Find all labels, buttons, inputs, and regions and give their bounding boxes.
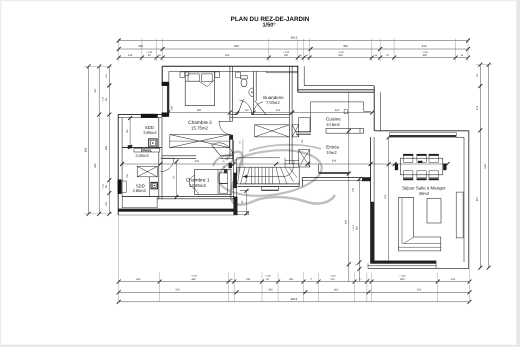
- wall cuisine north poche: [298, 90, 374, 92]
- svg-text:479: 479: [175, 289, 180, 292]
- wall cuisine entree: [296, 131, 311, 134]
- dim corridor stub: [239, 140, 243, 168]
- svg-text:650: 650: [225, 54, 230, 57]
- vertical dim 157 sejour: [384, 135, 391, 264]
- svg-text:14,85m2: 14,85m2: [189, 183, 206, 188]
- svg-text:150: 150: [451, 278, 456, 281]
- dim 400 rotated chambre2 west: [170, 105, 173, 110]
- vertical dim 862: [352, 177, 362, 282]
- dim bottom row 3 total 8013: [117, 297, 472, 304]
- svg-text:180: 180: [284, 54, 289, 57]
- dim left column lines: [84, 64, 112, 215]
- svg-text:3,85m2: 3,85m2: [143, 130, 157, 135]
- svg-text:627: 627: [476, 196, 479, 201]
- label chambre2: [188, 120, 212, 131]
- wall top exterior chambre2: [162, 66, 298, 71]
- wall corridor south of wc: [230, 115, 289, 118]
- dim sdd2 left: [126, 173, 129, 177]
- label dress: [135, 149, 152, 158]
- svg-text:8: 8: [369, 278, 370, 281]
- wall wing top with window: [118, 114, 168, 118]
- wall sejour east: [464, 131, 469, 269]
- label sejour: [402, 185, 446, 196]
- dim 146 label: [352, 187, 355, 191]
- dim top row 1 total 8013: [117, 36, 470, 43]
- wall chambre2 wc: [230, 66, 233, 158]
- wall sejour north with window: [375, 131, 469, 138]
- svg-text:516: 516: [422, 44, 427, 48]
- svg-text:452: 452: [343, 44, 348, 48]
- svg-text:274: 274: [476, 105, 479, 110]
- svg-text:980: 980: [423, 54, 428, 57]
- svg-text:8013: 8013: [291, 297, 298, 301]
- dim ticks bed chambre1: [222, 160, 226, 168]
- svg-text:171: 171: [172, 175, 175, 180]
- sofa sejour L: [398, 198, 441, 251]
- svg-text:940: 940: [344, 219, 347, 224]
- svg-text:252: 252: [276, 109, 281, 112]
- wall wing bottom poche: [118, 197, 237, 215]
- door buanderie arc: [253, 101, 266, 115]
- dim bottom row 1: [117, 275, 472, 284]
- wall west upper with window: [162, 66, 169, 116]
- svg-text:10m2: 10m2: [326, 150, 337, 155]
- svg-text:963: 963: [334, 289, 339, 292]
- interior dim chain horizontal: [120, 160, 449, 166]
- svg-text:153: 153: [289, 278, 294, 281]
- svg-text:420: 420: [335, 109, 340, 112]
- wall chambre1 north: [162, 156, 234, 168]
- kitchen counter top: [311, 102, 372, 131]
- closet entree strip xbox: [292, 118, 310, 168]
- svg-text:8013: 8013: [291, 36, 298, 40]
- dim top row 2: [117, 44, 470, 51]
- dim left labels: [85, 73, 109, 206]
- dim 155 terrace step: [241, 189, 249, 216]
- dim 990 under bed: [166, 109, 232, 115]
- wall entree south: [299, 178, 370, 187]
- svg-text:10,6m2: 10,6m2: [326, 122, 340, 127]
- wc cistern box: [236, 72, 241, 78]
- door chambre1 arc: [212, 143, 234, 161]
- wall sejour west poche: [370, 137, 374, 264]
- sideboard sejour east: [456, 192, 463, 238]
- svg-text:236: 236: [136, 278, 141, 281]
- wall step terrace poche: [234, 197, 249, 215]
- interior dim 171: [172, 160, 178, 199]
- svg-text:1/50°: 1/50°: [262, 22, 275, 29]
- svg-text:400: 400: [170, 105, 173, 110]
- dining table: [395, 154, 447, 180]
- svg-text:3,30m2: 3,30m2: [135, 153, 149, 158]
- wall sdd dress chambre2: [159, 118, 162, 200]
- svg-text:433: 433: [332, 160, 337, 163]
- svg-text:Séjour Salle à Manger: Séjour Salle à Manger: [402, 185, 446, 190]
- dim bottom extension lines: [119, 215, 470, 302]
- closet buanderie xbox: [255, 125, 290, 137]
- svg-text:+ 0.00: + 0.00: [102, 96, 105, 103]
- title PLAN DU REZ-DE-JARDIN: [231, 16, 310, 29]
- dim right labels: [476, 73, 487, 201]
- dim 100 252 wc buanderie: [233, 109, 294, 115]
- svg-text:+ 0.00: + 0.00: [102, 183, 105, 190]
- sink sdd1: [149, 139, 157, 147]
- svg-text:7,50m2: 7,50m2: [266, 100, 280, 105]
- svg-text:3,85m2: 3,85m2: [133, 188, 147, 193]
- svg-text:440: 440: [191, 278, 196, 281]
- label entree: [326, 145, 340, 155]
- bed chambre1: [190, 170, 232, 195]
- svg-text:112: 112: [105, 73, 108, 77]
- staircase: [237, 158, 349, 184]
- sink wc: [249, 88, 253, 97]
- bed chambre2: [180, 72, 220, 106]
- watermark agency logo: [213, 145, 335, 205]
- svg-text:400: 400: [195, 160, 200, 163]
- wall cuisine east: [374, 86, 380, 131]
- svg-text:1147: 1147: [484, 163, 487, 169]
- closet chambre2 xbox: [170, 135, 230, 148]
- svg-text:862: 862: [338, 54, 343, 57]
- wall chambre1 east poche: [233, 140, 236, 199]
- svg-text:595: 595: [417, 289, 422, 292]
- wall buanderie east exterior: [298, 66, 374, 92]
- svg-text:210: 210: [330, 278, 335, 281]
- svg-text:257: 257: [94, 88, 97, 93]
- door chambre2 arc: [219, 121, 233, 139]
- svg-text:608: 608: [85, 147, 88, 152]
- wall chambre1 south: [122, 197, 233, 199]
- label sdd1: [143, 125, 157, 135]
- vertical dim kitchen entree: [344, 92, 350, 281]
- svg-text:100: 100: [245, 109, 250, 112]
- wall dress poche band: [122, 145, 161, 152]
- svg-text:157: 157: [384, 194, 387, 199]
- dim sdd1 left: [126, 116, 132, 149]
- svg-text:Entrée: Entrée: [326, 145, 340, 150]
- wall buanderie west closets: [289, 66, 292, 164]
- vertical dim 225 entree: [301, 139, 304, 143]
- door wc arc: [238, 99, 252, 115]
- svg-text:635: 635: [94, 163, 97, 168]
- toilet wc: [241, 75, 247, 86]
- svg-text:39m2: 39m2: [419, 191, 430, 196]
- wall wc buanderie: [253, 71, 256, 114]
- svg-text:192: 192: [105, 201, 108, 206]
- svg-text:135: 135: [128, 54, 133, 57]
- label sdd2: [133, 183, 147, 193]
- svg-text:862: 862: [355, 225, 358, 230]
- wall west lower with window: [118, 114, 127, 215]
- svg-text:990: 990: [268, 289, 273, 292]
- wall stair enclosure south: [237, 184, 299, 191]
- svg-text:450: 450: [138, 44, 143, 48]
- svg-text:121: 121: [476, 73, 479, 78]
- buanderie high window: [266, 71, 297, 72]
- label buanderie: [263, 95, 284, 105]
- door corridor arc: [161, 158, 175, 172]
- svg-text:15,75m2: 15,75m2: [191, 126, 208, 131]
- closet sdd2 xbox: [137, 166, 157, 196]
- label chambre1: [186, 177, 210, 188]
- svg-text:860: 860: [400, 278, 405, 281]
- dim 420 kitchen: [290, 109, 374, 115]
- dim right column lines: [476, 63, 492, 270]
- label cuisine: [326, 117, 342, 127]
- dim top row 3: [117, 51, 470, 60]
- wall sejour bottom poche: [368, 261, 469, 269]
- dim bottom row 2: [117, 289, 472, 295]
- svg-text:153: 153: [246, 278, 251, 281]
- sink sdd2: [151, 182, 157, 188]
- dim top extension lines: [119, 39, 468, 62]
- svg-text:815: 815: [234, 44, 239, 48]
- svg-text:909: 909: [105, 145, 108, 150]
- svg-text:990: 990: [197, 109, 202, 112]
- kitchen counter bottom: [326, 128, 364, 133]
